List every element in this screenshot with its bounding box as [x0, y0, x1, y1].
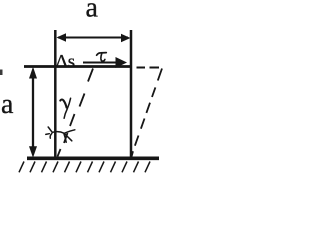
arrowhead left (top dimension) [57, 33, 67, 42]
left crow's foot [48, 127, 52, 132]
svg-text:a: a [86, 0, 99, 24]
svg-text:Δs: Δs [56, 52, 76, 73]
arrowhead right (top dimension) [121, 34, 131, 43]
dashed top extension (displaced top edge) [137, 67, 160, 69]
label τ (shear stress) [97, 53, 107, 62]
dimension line (left, height a) [32, 77, 34, 147]
arrowhead up (left dimension) [29, 67, 37, 79]
angle arc γ (hand-drawn with crow's-foot arrowheads) [46, 127, 75, 142]
connecting arc [52, 132, 64, 134]
dimension line (top, width a) [58, 37, 128, 39]
square right edge (extends up as dimension tick) [130, 30, 133, 159]
top edge of element (with left extension to dimension arrow) [24, 65, 132, 68]
ground hatching [19, 162, 150, 173]
scan mark (left page edge) [0, 70, 3, 76]
label γ (shear angle) [60, 98, 70, 118]
ground line [27, 157, 159, 161]
dashed deformed left side [58, 69, 94, 157]
dashed deformed right side [131, 69, 162, 158]
right crow's foot [64, 130, 75, 134]
left tick [46, 133, 50, 136]
svg-text:a: a [1, 89, 14, 120]
arrow τ (shear force arrow) [83, 62, 117, 64]
square left edge (extends up as dimension tick) [54, 30, 57, 159]
arrowhead down (left dimension) [29, 146, 37, 158]
